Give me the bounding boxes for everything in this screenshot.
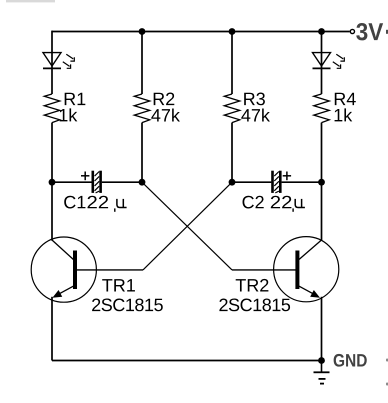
wire top rail 3V bbox=[52, 31, 350, 33]
resistor R1 bbox=[44, 94, 59, 123]
value 1k bbox=[335, 108, 353, 121]
wire C2 to node D bbox=[282, 181, 322, 183]
value 47k bbox=[241, 108, 270, 121]
wire C1 to node B bbox=[102, 181, 142, 183]
capacitor C1 bbox=[81, 171, 102, 193]
label TR1 bbox=[102, 279, 135, 291]
resistor R4 bbox=[314, 94, 329, 123]
wire left branch lower bbox=[51, 123, 53, 241]
ground symbol bbox=[314, 361, 330, 384]
label R1 bbox=[65, 93, 86, 105]
net label GND bbox=[334, 354, 367, 367]
wire node C to C2 bbox=[232, 181, 271, 183]
capacitor C2 bbox=[271, 171, 291, 193]
wire left branch upper bbox=[51, 31, 53, 94]
wire TR2 emitter down bbox=[321, 297, 323, 361]
junction bottom rail GND bbox=[318, 357, 325, 364]
wire R2 branch upper bbox=[141, 32, 143, 95]
label C2 22u bbox=[243, 196, 264, 209]
wire TR1 emitter down bbox=[51, 297, 53, 361]
wire cross-coupling node C to TR1 base bbox=[77, 182, 232, 270]
net label 3V bbox=[356, 23, 383, 40]
label C1 22u bbox=[64, 196, 85, 209]
junction top rail at R2 bbox=[139, 28, 146, 35]
wire R3 branch upper bbox=[231, 32, 233, 95]
LED LED1 bbox=[43, 53, 74, 69]
node C junction bbox=[229, 179, 236, 186]
node B junction bbox=[139, 179, 146, 186]
wire cross-coupling node B to TR2 base bbox=[142, 182, 296, 270]
value 2SC1815 bbox=[92, 299, 163, 312]
label R3 bbox=[244, 93, 265, 106]
node D junction bbox=[318, 179, 325, 186]
node A junction bbox=[49, 179, 56, 186]
terminal 3V open circle bbox=[350, 29, 354, 33]
value 47k bbox=[151, 108, 180, 121]
wire R2 branch lower bbox=[141, 123, 143, 183]
transistor TR1 bbox=[31, 237, 96, 302]
transistor TR2 bbox=[274, 237, 339, 302]
wire right branch upper bbox=[321, 32, 323, 95]
LED LED2 bbox=[313, 53, 345, 69]
wire right branch lower bbox=[321, 123, 323, 241]
label TR2 bbox=[236, 279, 269, 292]
value 2SC1815 bbox=[219, 299, 290, 312]
resistor R2 bbox=[134, 94, 149, 123]
wire bottom rail bbox=[52, 360, 322, 362]
wire R3 branch lower bbox=[231, 123, 233, 183]
junction top rail at R3 bbox=[229, 28, 236, 35]
value 1k bbox=[60, 108, 78, 121]
label R4 bbox=[335, 93, 356, 105]
wire node A to C1 bbox=[52, 181, 92, 183]
label R2 bbox=[154, 93, 175, 106]
junction top rail at R4 bbox=[318, 28, 325, 35]
resistor R3 bbox=[224, 94, 239, 123]
